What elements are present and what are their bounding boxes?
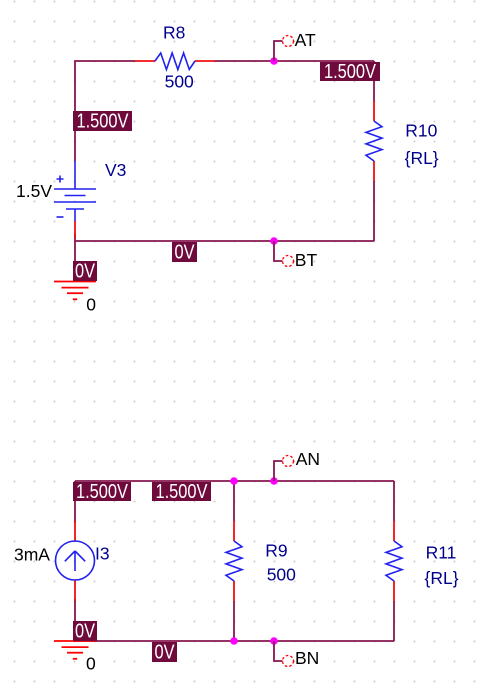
wire: V3 negative lead to bottom rail and ground stub (74, 234, 76, 281)
svg-text:{RL}: {RL} (405, 148, 439, 168)
node AT port circle (283, 36, 294, 47)
wire: Thevenin right rail upper (373, 61, 375, 101)
resistor R11 (386, 521, 402, 601)
svg-text:BT: BT (295, 250, 318, 270)
svg-text:0: 0 (86, 294, 96, 314)
svg-text:0V: 0V (75, 620, 96, 642)
bias voltage label 0V (bottom rail middle) (172, 241, 197, 263)
svg-text:0V: 0V (75, 260, 96, 282)
wire: R9 top connection (233, 481, 235, 521)
bias voltage label 0V (above ground, Thevenin) (73, 260, 97, 282)
svg-text:1.500V: 1.500V (324, 61, 377, 83)
bias voltage label 1.500V (left of V3 node) (73, 110, 132, 132)
svg-text:1.500V: 1.500V (77, 110, 130, 132)
svg-text:1.500V: 1.500V (76, 481, 129, 503)
svg-text:1.500V: 1.500V (156, 481, 209, 503)
wire: stub to port AT (274, 41, 283, 61)
resistor R9 (226, 521, 242, 601)
svg-text:1.5V: 1.5V (16, 181, 52, 201)
junction node R9 bottom (230, 637, 238, 645)
bias voltage label 0V (above ground, Norton) (73, 620, 97, 642)
wire: Thevenin top-right segment (215, 60, 374, 62)
svg-text:R9: R9 (265, 541, 287, 561)
wire: stub to port BN (274, 641, 283, 661)
junction node at AT (270, 57, 278, 65)
wire: Thevenin right rail lower (373, 181, 375, 241)
resistor R8 (135, 53, 215, 70)
svg-text:{RL}: {RL} (425, 568, 459, 588)
junction node at BT (270, 237, 278, 245)
node BT port circle (283, 256, 294, 267)
resistor R10 (366, 101, 382, 181)
junction node R9 top (230, 477, 238, 485)
svg-text:3mA: 3mA (14, 545, 50, 565)
svg-text:0V: 0V (175, 241, 196, 263)
svg-text:AT: AT (295, 30, 316, 50)
svg-text:0: 0 (86, 653, 96, 673)
svg-text:I3: I3 (95, 543, 110, 563)
svg-text:500: 500 (165, 71, 194, 91)
ground 0 (Norton) (54, 641, 96, 659)
voltage source V3 (54, 161, 96, 238)
node AN port circle (283, 456, 294, 467)
wire: R9 bottom connection (233, 601, 235, 641)
node BN port circle (283, 656, 294, 667)
ground 0 (Thevenin) (54, 282, 96, 300)
wire: stub to port BT (274, 241, 283, 261)
svg-text:R10: R10 (405, 120, 437, 140)
wire: Norton right rail lower (393, 601, 395, 641)
svg-text:AN: AN (296, 449, 320, 469)
wire: stub to port AN (274, 461, 283, 481)
wire: Norton left rail lower (74, 599, 76, 641)
current source I3 (56, 521, 95, 601)
bias voltage label 1.500V (Norton left) (73, 481, 131, 503)
junction node at BN (270, 637, 278, 645)
svg-text:BN: BN (295, 648, 319, 668)
svg-text:V3: V3 (105, 160, 126, 180)
svg-text:0V: 0V (155, 641, 176, 663)
wire: Norton right rail upper (393, 481, 395, 521)
svg-text:R8: R8 (163, 22, 185, 42)
svg-text:R11: R11 (426, 542, 457, 562)
wire: Norton bottom rail (75, 640, 394, 642)
bias voltage label 1.500V (node AT, right) (320, 61, 380, 83)
wire: Thevenin top-left segment and left rail (75, 61, 135, 161)
bias voltage label 0V (Norton bottom rail) (152, 641, 177, 663)
bias voltage label 1.500V (Norton, left of R9) (152, 481, 211, 503)
wire: Norton top rail (75, 480, 394, 482)
junction node at AN (270, 477, 278, 485)
svg-text:500: 500 (267, 565, 296, 585)
wire: Norton left rail upper (74, 481, 76, 523)
wire: Thevenin bottom rail (75, 240, 374, 242)
